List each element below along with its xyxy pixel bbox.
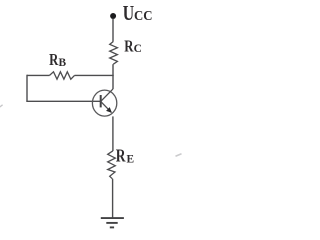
wire: RE bottom to ground [112,179,114,218]
label RC [124,38,142,56]
label RB [49,52,66,70]
wire: base wire [26,100,100,102]
svg-text:R: R [49,52,58,70]
svg-text:R: R [124,38,133,56]
ground [101,218,124,227]
stray scan speck at left edge [0,105,3,107]
label RE [116,147,134,166]
label UCC [123,2,153,26]
resistor RE [108,151,116,179]
svg-text:C: C [134,42,142,55]
svg-text:B: B [59,56,67,69]
stray scan smudge right of RE [176,154,182,156]
wire: Rc bottom to collector junction [112,64,114,89]
resistor RB [50,72,75,79]
svg-text:E: E [127,152,135,165]
wire: emitter to RE top [112,116,114,151]
wire: RB left segment [27,74,50,76]
node UCC supply dot [110,13,116,19]
resistor RC [110,42,118,65]
svg-text:U: U [123,2,134,26]
wire: Ucc dot to Rc top [112,19,114,42]
svg-text:CC: CC [134,8,153,23]
wire: RB right segment to collector node [75,74,114,76]
transistor Q1 (NPN) [92,89,116,116]
wire: left vertical feedback wire [26,75,28,102]
svg-text:R: R [116,147,126,166]
